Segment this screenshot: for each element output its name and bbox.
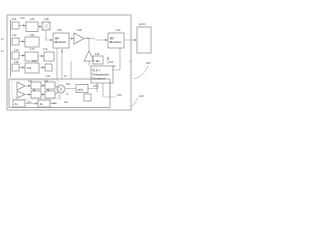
svg-text:1x: 1x bbox=[66, 92, 69, 96]
svg-text:12x: 12x bbox=[46, 74, 51, 78]
svg-text:12x: 12x bbox=[28, 79, 33, 83]
svg-text:134: 134 bbox=[117, 93, 122, 97]
svg-text:1x: 1x bbox=[87, 36, 90, 40]
svg-text:126: 126 bbox=[95, 52, 100, 56]
svg-text:128: 128 bbox=[77, 28, 82, 32]
svg-text:14x: 14x bbox=[52, 101, 57, 105]
svg-text:Control: Control bbox=[93, 77, 105, 81]
svg-text:Modem: Modem bbox=[110, 40, 122, 44]
svg-text:146: 146 bbox=[14, 60, 19, 64]
svg-text:12x: 12x bbox=[27, 100, 32, 104]
svg-text:1x: 1x bbox=[40, 103, 43, 106]
svg-text:110: 110 bbox=[12, 17, 17, 21]
svg-text:x1x: x1x bbox=[27, 67, 32, 70]
svg-text:174: 174 bbox=[32, 59, 37, 63]
svg-text:14x: 14x bbox=[44, 79, 49, 83]
svg-text:1x: 1x bbox=[113, 64, 116, 68]
svg-text:132: 132 bbox=[116, 28, 121, 32]
svg-text:140: 140 bbox=[20, 16, 25, 20]
svg-text:142: 142 bbox=[12, 33, 17, 37]
svg-text:152: 152 bbox=[146, 61, 151, 65]
svg-text:148: 148 bbox=[44, 17, 49, 21]
svg-text:1x: 1x bbox=[64, 74, 67, 78]
svg-text:xx1x: xx1x bbox=[78, 89, 84, 92]
svg-text:122: 122 bbox=[109, 60, 114, 64]
svg-text:121: 121 bbox=[93, 84, 98, 88]
svg-text:144: 144 bbox=[14, 48, 19, 52]
svg-text:160: 160 bbox=[30, 17, 35, 21]
svg-text:156: 156 bbox=[57, 28, 62, 32]
svg-text:12x: 12x bbox=[96, 60, 101, 63]
svg-text:15x: 15x bbox=[66, 82, 71, 86]
svg-text:1x: 1x bbox=[15, 103, 18, 106]
svg-text:14x: 14x bbox=[64, 100, 69, 104]
svg-text:172: 172 bbox=[43, 47, 48, 51]
svg-text:124: 124 bbox=[141, 22, 146, 26]
svg-text:Modem: Modem bbox=[55, 40, 67, 44]
svg-text:162: 162 bbox=[30, 33, 35, 37]
svg-text:120: 120 bbox=[139, 94, 144, 98]
svg-text:1x: 1x bbox=[1, 37, 4, 41]
svg-text:1x: 1x bbox=[1, 49, 4, 53]
svg-text:170: 170 bbox=[30, 47, 35, 51]
